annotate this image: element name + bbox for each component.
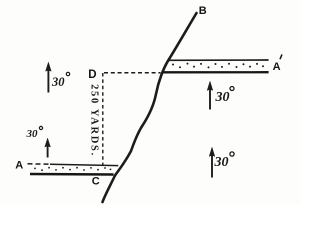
label A' bbox=[273, 54, 282, 73]
road A bottom edge bbox=[30, 173, 114, 176]
dashed vertical line D to C bbox=[102, 73, 104, 166]
road B (diagonal crossing road) bbox=[103, 13, 197, 202]
road A stipple dots bbox=[34, 167, 111, 171]
road A top edge bbox=[50, 164, 118, 165]
svg-text:30: 30 bbox=[51, 75, 65, 89]
svg-text:30: 30 bbox=[215, 90, 230, 105]
arrow right-upper bbox=[207, 81, 213, 109]
svg-text:30: 30 bbox=[214, 155, 229, 170]
svg-text:A: A bbox=[15, 160, 23, 172]
arrow left-middle bbox=[45, 138, 51, 157]
road A' stipple dots bbox=[172, 63, 264, 69]
arrow right-lower bbox=[209, 147, 215, 177]
road A top edge (dashed start) bbox=[28, 163, 51, 165]
road A' top edge bbox=[168, 59, 268, 61]
dashed horizontal line from D to road B bbox=[104, 72, 161, 74]
svg-text:C: C bbox=[92, 176, 100, 188]
road A' bottom edge bbox=[162, 71, 268, 73]
svg-text:B: B bbox=[199, 5, 207, 17]
arrow top-left bbox=[46, 62, 52, 92]
svg-text:250 YARDS.: 250 YARDS. bbox=[89, 84, 100, 157]
svg-text:D: D bbox=[88, 69, 96, 81]
svg-text:30: 30 bbox=[26, 128, 39, 140]
svg-text:A: A bbox=[273, 61, 281, 73]
